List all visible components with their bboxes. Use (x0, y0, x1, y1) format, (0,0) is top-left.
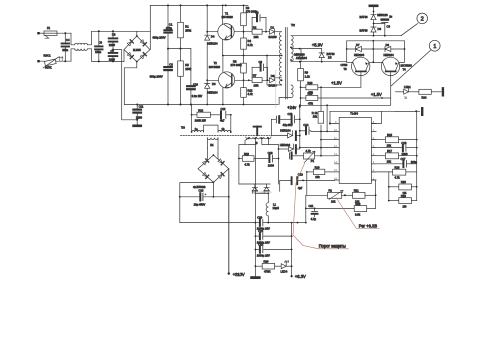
pin stubs right (371, 124, 376, 181)
winding 1b (218, 127, 232, 133)
svg-text:4.7k: 4.7k (395, 175, 401, 179)
svg-text:R18: R18 (395, 165, 400, 169)
diode D12 (271, 119, 300, 140)
secondary tapped winding (246, 137, 271, 145)
+6.3V rail (291, 223, 293, 277)
mid junction wire (168, 48, 191, 50)
resistor R16 (312, 86, 324, 131)
resistor R5 (178, 49, 192, 105)
surge arrows (59, 57, 63, 62)
svg-text:C21: C21 (309, 204, 314, 208)
wire y=48.6 (291, 47, 322, 48)
svg-text:100R 2W: 100R 2W (195, 118, 207, 122)
svg-text:4µ7: 4µ7 (298, 186, 303, 190)
svg-text:B1: B1 (210, 143, 214, 147)
interstage vertical (372, 41, 374, 63)
pin numbers left (334, 120, 337, 181)
svg-text:Tr2: Tr2 (291, 23, 295, 27)
winding link (204, 125, 218, 132)
svg-text:4.7k: 4.7k (248, 92, 254, 96)
svg-text:BAT46: BAT46 (360, 15, 369, 19)
svg-text:1: 1 (433, 44, 436, 50)
tap box right (262, 138, 269, 144)
LED1 row (396, 85, 443, 100)
svg-text:C8: C8 (112, 32, 116, 36)
svg-text:10R: 10R (254, 84, 259, 88)
svg-text:D1: D1 (271, 25, 275, 29)
svg-text:Рег +6.3В: Рег +6.3В (359, 224, 378, 229)
svg-text:4.7µ: 4.7µ (311, 217, 317, 221)
resistor R9 (298, 62, 311, 88)
svg-text:S07K: S07K (45, 65, 52, 69)
capacitor C11 (133, 104, 143, 121)
svg-text:10k: 10k (387, 143, 392, 147)
gnd rail (254, 145, 256, 277)
transistor T2 (209, 56, 235, 105)
bottom box wire (239, 183, 270, 185)
svg-text:1%: 1% (403, 205, 407, 209)
resistor R7 (248, 67, 268, 87)
svg-text:2SC3320: 2SC3320 (209, 65, 221, 69)
svg-text:BA159: BA159 (269, 35, 278, 39)
svg-text:T3: T3 (344, 67, 348, 71)
svg-text:R4: R4 (248, 39, 252, 43)
svg-text:16: 16 (334, 176, 337, 180)
node (167, 4, 169, 6)
wire DC- (124, 62, 137, 105)
capacitor C12 (220, 107, 231, 122)
snubber box wires (239, 145, 279, 185)
svg-text:R5: R5 (185, 63, 189, 67)
collector rail y=40.8 (347, 40, 405, 42)
resistor R18b row pin2 (371, 165, 416, 179)
capacitor C6 (252, 60, 267, 71)
node (281, 55, 283, 57)
svg-text:R11: R11 (308, 92, 313, 96)
capacitor C16 (187, 49, 202, 105)
op-amp U1 TL494 (339, 112, 371, 184)
resistor R1 (178, 5, 192, 48)
svg-text:C16: C16 (401, 141, 406, 145)
svg-text:4.7k: 4.7k (306, 149, 312, 153)
grey line (275, 70, 277, 108)
svg-text:+1.5V: +1.5V (371, 92, 382, 97)
diode stack top: bold bar (370, 5, 377, 8)
svg-text:C2: C2 (255, 11, 259, 15)
terminal J1 (37, 32, 39, 34)
svg-text:D5: D5 (328, 56, 332, 60)
output wire to feedback (292, 222, 306, 224)
wire from choke (88, 31, 137, 61)
svg-text:470n: 470n (166, 26, 172, 30)
svg-text:P1: P1 (311, 159, 315, 163)
resistor R8 (231, 56, 247, 81)
svg-text:C1: C1 (169, 23, 173, 27)
svg-text:R10: R10 (308, 81, 313, 85)
varistor RSC1 (40, 54, 71, 70)
diode D2 MBR (294, 49, 307, 62)
svg-text:LED1: LED1 (404, 85, 411, 89)
transformer Tr2 secondary top (291, 36, 293, 62)
svg-text:LED4: LED4 (281, 270, 288, 274)
svg-text:C22: C22 (258, 243, 263, 247)
svg-text:C19: C19 (268, 151, 273, 155)
thick winding (254, 126, 261, 128)
terminal J2 (37, 60, 39, 62)
svg-text:+1.5V: +1.5V (331, 81, 342, 86)
svg-text:C20: C20 (257, 215, 262, 219)
resistor R22 (354, 202, 375, 217)
diode D11 BAT46 (360, 27, 382, 36)
pin10 wire (311, 130, 335, 132)
transformer Tr2 secondary bottom (291, 85, 293, 98)
svg-text:R13: R13 (198, 108, 203, 112)
capacitor C2 (252, 11, 266, 22)
svg-text:10k: 10k (315, 175, 320, 179)
pin numbers right (373, 120, 375, 181)
diode D5 BAT46 (319, 49, 335, 62)
choke Tr1 (75, 43, 88, 50)
R16 to P1 vertical (320, 131, 322, 155)
svg-text:R26: R26 (264, 260, 269, 264)
capacitor C5 1u (373, 15, 393, 37)
winding return (279, 98, 291, 105)
resistor R17 row pin4 (371, 149, 417, 163)
resistor R2 (252, 18, 266, 40)
D4 D6 chain vertical (206, 5, 208, 104)
svg-text:T2: T2 (214, 61, 218, 65)
top wire (330, 110, 416, 112)
svg-text:HER104: HER104 (207, 90, 218, 94)
schottky diode D15 (264, 184, 272, 194)
top secondary rail (291, 35, 401, 37)
wire (57, 33, 71, 43)
annotation line reg (336, 198, 379, 229)
pin12 wire (300, 147, 335, 149)
ground (136, 120, 138, 125)
svg-text:R19: R19 (244, 152, 249, 156)
resistor R21 (345, 189, 376, 204)
capacitor C22 (255, 243, 291, 258)
base drive wire (291, 60, 347, 62)
svg-text:R7: R7 (253, 74, 257, 78)
pin1 wire (371, 180, 375, 208)
svg-text:C11: C11 (139, 105, 144, 109)
node (290, 46, 292, 48)
resistor R19 (239, 152, 269, 167)
ground (252, 276, 260, 279)
svg-text:3.9k: 3.9k (355, 212, 361, 216)
svg-text:C14: C14 (303, 123, 308, 127)
resistor R11 (300, 87, 391, 132)
diode D13 (278, 143, 300, 153)
cathode wire (255, 192, 268, 194)
svg-text:47µ 50V: 47µ 50V (283, 123, 293, 127)
svg-text:100n: 100n (62, 48, 68, 52)
svg-text:150k: 150k (185, 29, 191, 33)
capacitor C21b (306, 204, 354, 221)
svg-text:1.1k: 1.1k (305, 74, 311, 78)
capacitor C21c (255, 229, 291, 244)
svg-text:10k: 10k (313, 114, 318, 118)
transformer Tr2 core (285, 28, 287, 100)
svg-text:C16: C16 (193, 82, 198, 86)
bridge2 bottom vertex wire (212, 182, 214, 197)
capacitor C7 (Y) (109, 49, 118, 63)
svg-text:+310V: +310V (233, 272, 245, 277)
pin11 wire (321, 139, 335, 141)
svg-text:R 1b: R 1b (312, 111, 318, 115)
+310V line (228, 169, 230, 274)
svg-text:R8: R8 (233, 60, 237, 64)
svg-text:C21: C21 (258, 229, 263, 233)
wire DC+ riser (149, 5, 151, 49)
rail +24 (299, 105, 301, 147)
svg-text:R1: R1 (185, 25, 189, 29)
capacitor C1 (153, 5, 173, 48)
wire to choke (71, 33, 75, 61)
svg-text:R2: R2 (253, 25, 257, 29)
svg-text:R21: R21 (354, 189, 359, 193)
bottom rail (124, 104, 278, 106)
top rail (150, 4, 248, 6)
svg-text:2SC3320: 2SC3320 (222, 15, 234, 19)
svg-text:HER104: HER104 (384, 53, 395, 57)
svg-text:C12: C12 (221, 107, 226, 111)
wires to bridge2 (208, 148, 219, 161)
svg-text:2200: 2200 (109, 57, 115, 61)
schottky diode D14 (252, 184, 264, 194)
svg-text:Tr3: Tr3 (181, 125, 185, 129)
svg-text:4n7: 4n7 (220, 118, 225, 122)
svg-text:C3: C3 (99, 41, 103, 45)
resistor R12 (241, 80, 254, 104)
svg-text:Порог защиты: Порог защиты (319, 244, 346, 249)
wire to winding 1b (230, 115, 232, 133)
pin9 wire (330, 111, 335, 123)
svg-text:+6.3V: +6.3V (295, 274, 306, 279)
base wire T2 (207, 79, 249, 81)
DC loop wire (180, 183, 256, 223)
transistor T3 (341, 57, 374, 87)
svg-text:MBR120: MBR120 (377, 13, 388, 17)
capacitor C3 (95, 30, 102, 62)
svg-text:HER104: HER104 (354, 53, 365, 57)
svg-text:C4: C4 (66, 38, 70, 42)
svg-text:2: 2 (421, 16, 424, 22)
capacitor C17 row pin3 (371, 157, 417, 167)
svg-text:1b: 1b (222, 127, 225, 131)
svg-text:C10: C10 (199, 189, 204, 193)
diode D1 (269, 25, 282, 39)
svg-text:MBR160: MBR160 (294, 52, 305, 56)
node (206, 4, 208, 6)
svg-text:2200: 2200 (109, 43, 115, 47)
resistor R26 (255, 260, 281, 274)
pointer circle 1 (391, 40, 440, 86)
svg-text:F1: F1 (47, 26, 51, 30)
svg-text:100n: 100n (95, 50, 101, 54)
svg-text:C8: C8 (169, 63, 173, 67)
svg-text:R17: R17 (387, 149, 392, 153)
fuse F1 (44, 26, 57, 38)
svg-text:10µH: 10µH (273, 206, 280, 210)
svg-text:2SC5200: 2SC5200 (401, 64, 413, 68)
svg-text:47R: 47R (308, 101, 313, 105)
potentiometer P2 (306, 189, 345, 204)
resistor R13 (191, 105, 220, 123)
diode D10 BAT46 (360, 13, 389, 27)
wire AC bottom to bridge (123, 50, 125, 62)
svg-text:0.7k: 0.7k (248, 43, 254, 47)
svg-text:L1: L1 (273, 202, 276, 206)
svg-text:D9: D9 (271, 74, 275, 78)
svg-text:4xUF5408: 4xUF5408 (193, 185, 206, 189)
resistor R23 1% (388, 194, 417, 209)
svg-text:100n: 100n (411, 160, 417, 164)
svg-text:D6: D6 (378, 27, 382, 31)
svg-text:D4: D4 (211, 35, 215, 39)
svg-text:R19: R19 (315, 165, 320, 169)
capacitor C14 (299, 123, 311, 134)
resistor R3 (241, 5, 258, 31)
svg-text:R9: R9 (305, 71, 309, 75)
svg-text:RSC1: RSC1 (44, 54, 52, 58)
svg-text:HER104: HER104 (280, 129, 291, 133)
svg-text:1a: 1a (195, 127, 198, 131)
svg-text:D7: D7 (356, 43, 360, 47)
node (180, 4, 182, 6)
svg-text:B: B (256, 141, 258, 145)
svg-text:HER104: HER104 (207, 41, 218, 45)
svg-text:13: 13 (334, 152, 337, 156)
diode D7 (347, 41, 374, 62)
svg-text:14: 14 (334, 160, 337, 164)
diode D6 (205, 82, 218, 95)
transistor T4 (373, 41, 412, 98)
svg-text:T4: T4 (403, 67, 407, 71)
resistor R15 row pin6 (371, 133, 417, 147)
capacitor C16b row pin5 (371, 141, 417, 156)
svg-text:BAT46: BAT46 (360, 29, 369, 33)
vertical left rows (306, 172, 307, 223)
pin stubs left (335, 124, 340, 181)
diode D8 (373, 43, 404, 57)
transformer Tr2 primary winding (279, 32, 281, 85)
inductor L1 (266, 193, 279, 222)
svg-text:470R: 470R (264, 270, 270, 274)
capacitor C18 (280, 172, 335, 191)
svg-text:CP50: CP50 (341, 63, 348, 67)
svg-text:10µ 450V: 10µ 450V (194, 202, 206, 206)
svg-text:C13: C13 (288, 112, 293, 116)
wire (266, 18, 270, 32)
svg-text:680µ 200V: 680µ 200V (150, 75, 163, 79)
svg-text:/HER104: /HER104 (296, 56, 307, 60)
svg-text:1000: 1000 (268, 163, 274, 167)
svg-text:680µ 200V: 680µ 200V (153, 36, 166, 40)
capacitor C10 (180, 189, 229, 207)
svg-text:10k: 10k (387, 159, 392, 163)
capacitor C9 (Y) (109, 30, 118, 49)
capacitor C19 (268, 151, 279, 167)
winding B1 (208, 138, 219, 148)
svg-text:1u: 1u (389, 15, 392, 19)
resistor R4 (241, 31, 254, 56)
capacitor C13 pair (271, 112, 300, 127)
potentiometer P1 (290, 149, 335, 163)
pin8 wire (371, 111, 381, 123)
svg-text:10R: 10R (254, 35, 259, 39)
svg-text:1000µ 10V: 1000µ 10V (257, 253, 270, 257)
tap box left (245, 138, 255, 144)
terminal bar row2 (395, 108, 422, 115)
node (64, 60, 66, 62)
svg-text:TL494: TL494 (350, 112, 358, 116)
svg-text:R23: R23 (401, 194, 406, 198)
svg-text:C17: C17 (401, 157, 406, 161)
svg-text:P2: P2 (329, 189, 333, 193)
svg-text:R20: R20 (401, 180, 406, 184)
winding 1a (191, 115, 204, 133)
svg-text:R14: R14 (422, 96, 427, 100)
midpoint wire (223, 55, 282, 57)
svg-text:R12: R12 (248, 88, 253, 92)
transistor T1 (218, 5, 234, 55)
right rail (416, 111, 418, 200)
transformer Tr3 core (181, 135, 272, 137)
resistor R19b (306, 165, 335, 179)
svg-text:R15: R15 (387, 133, 392, 137)
resistor R10 (301, 81, 361, 95)
pointer circle 2 (401, 13, 428, 36)
diode D4 (205, 35, 218, 46)
annotation line threshold (293, 164, 349, 249)
svg-text:R3: R3 (246, 6, 250, 10)
svg-text:C3: C3 (387, 25, 391, 29)
svg-text:4.7k: 4.7k (245, 163, 251, 167)
LED4 (281, 261, 292, 274)
wire (40, 32, 44, 34)
svg-text:10k: 10k (331, 200, 336, 204)
svg-text:T1: T1 (225, 12, 229, 16)
svg-text:D8: D8 (386, 43, 390, 47)
base wire T1 (207, 31, 252, 33)
svg-text:+24v: +24v (287, 105, 297, 110)
chassis wire (113, 50, 137, 120)
svg-text:D6: D6 (212, 82, 216, 86)
svg-text:BL505: BL505 (133, 48, 141, 52)
resistor R20 1% (388, 172, 418, 201)
capacitor C20 (255, 215, 291, 230)
wire AC top to bridge (137, 31, 151, 36)
svg-text:2.2n 2kV: 2.2n 2kV (192, 94, 203, 98)
bridge rectifier B2 4xUF5408 (193, 154, 229, 189)
capacitor C4 (62, 38, 70, 61)
svg-text:C6: C6 (259, 60, 263, 64)
node (64, 32, 66, 34)
svg-text:270 330k: 270 330k (231, 63, 243, 67)
diode D9 (268, 74, 282, 88)
capacitor C8 (150, 49, 174, 105)
svg-text:BAT46: BAT46 (327, 52, 336, 56)
bridge rectifier BL505 (124, 35, 150, 62)
node (225, 4, 227, 6)
svg-text:+5.9V: +5.9V (312, 43, 323, 48)
svg-text:HER104: HER104 (280, 143, 291, 147)
svg-text:R22: R22 (355, 202, 360, 206)
